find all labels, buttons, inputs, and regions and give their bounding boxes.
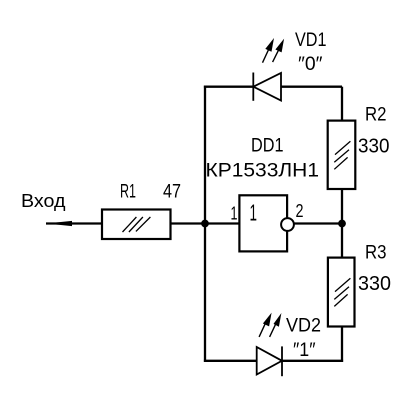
wire gate output [294, 222, 342, 224]
svg-text:DD1: DD1 [251, 136, 284, 157]
wire input horizontal [46, 222, 239, 224]
svg-text:Вход: Вход [21, 190, 66, 211]
svg-text:47: 47 [163, 182, 181, 203]
svg-text:1: 1 [231, 203, 238, 224]
resistor R2 [328, 121, 356, 189]
node output junction [338, 220, 346, 228]
wire R2 to output junction [341, 189, 343, 224]
svg-text:″0″: ″0″ [298, 54, 323, 75]
resistor R1 [102, 210, 171, 240]
svg-text:R3: R3 [365, 242, 387, 264]
svg-text:1: 1 [250, 200, 258, 226]
wire R3 to bottom horizontal [341, 327, 343, 362]
svg-text:330: 330 [358, 272, 391, 295]
wire left vertical bus [204, 86, 206, 362]
svg-text:VD2: VD2 [286, 316, 321, 337]
LED VD2 [257, 313, 282, 377]
wire top horizontal [204, 86, 342, 88]
svg-text:R2: R2 [365, 104, 387, 126]
input terminal arrow [46, 221, 72, 226]
svg-text:330: 330 [358, 135, 390, 158]
wire top right vertical to R2 [341, 87, 343, 121]
svg-text:″1″: ″1″ [293, 340, 316, 361]
wire output junction to R3 [341, 224, 343, 259]
resistor R3 [328, 258, 355, 327]
svg-text:VD1: VD1 [295, 30, 327, 51]
node input junction [201, 220, 209, 228]
logic gate DD1 inverter [239, 195, 294, 251]
svg-text:КР1533ЛН1: КР1533ЛН1 [206, 161, 320, 182]
svg-text:R1: R1 [120, 182, 136, 203]
svg-text:2: 2 [296, 200, 304, 221]
LED VD1 [253, 38, 284, 101]
wire bottom horizontal [204, 360, 343, 362]
